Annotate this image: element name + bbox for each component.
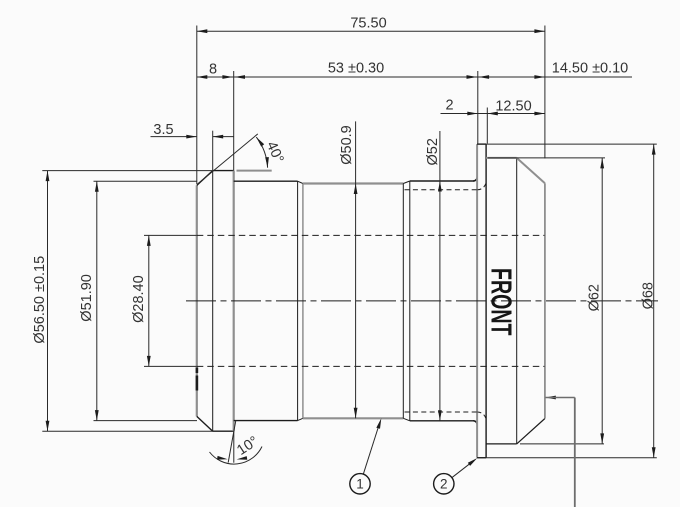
tilted face extension 10deg: [228, 421, 236, 463]
ext line y=144.1 OD68 top: [477, 143, 657, 145]
ext line x=477.8 (disc face): [477, 71, 479, 144]
ext line y=420.6 OD51.90 bottom: [94, 420, 198, 422]
leader to right face (L-shape): [545, 396, 556, 400]
step face edge x=233.7 (gray): [233, 171, 235, 432]
dim 75.50 line: [197, 30, 545, 32]
flange disc top cap OD68: [477, 143, 486, 145]
svg-text:Ø56.50 ±0.15: Ø56.50 ±0.15: [32, 256, 48, 344]
flange right face x=544.9 (gray): [544, 183, 546, 418]
cone junction edge x=516.7: [516, 158, 518, 444]
hidden weld root arc top: [477, 182, 486, 190]
flange disc right face / joint x=486.1: [485, 144, 487, 458]
dim OD68 line: [653, 144, 655, 458]
OD56.5 top edge: [213, 170, 234, 172]
dim row3 line: [441, 113, 545, 115]
svg-text:Ø68: Ø68: [641, 282, 657, 309]
svg-text:2: 2: [440, 477, 448, 492]
svg-text:Ø62: Ø62: [587, 284, 603, 311]
ext line y=431.2 OD56.5 bottom: [42, 430, 213, 432]
hidden weld root bottom (dashed): [405, 411, 478, 413]
centerline: [186, 300, 658, 302]
horizontal reference line 40deg (gray): [237, 170, 272, 172]
weld prep chamfer bottom-left: [197, 416, 213, 431]
dim 3.5 lines: [151, 136, 197, 138]
ext line y=366.4 OD28.40 bottom: [144, 365, 197, 367]
hidden weld root arc bottom: [477, 412, 486, 420]
chamfer tangent edge x=212.7: [212, 171, 214, 432]
balloon 1 circle: [350, 474, 370, 494]
hidden weld root top (dashed): [405, 189, 478, 191]
svg-text:8: 8: [209, 61, 217, 77]
weld fillet top (solid): [473, 176, 477, 181]
ext line vertical 10deg: [233, 432, 235, 463]
chamfer extension line 40deg: [198, 134, 258, 184]
step2 face edge x=297.6: [297, 181, 299, 420]
step2 chamfer bottom: [298, 418, 303, 420]
step3 chamfer bottom: [403, 418, 410, 421]
ext line x=487.3 (disc back): [486, 108, 488, 144]
10deg arc: [210, 447, 263, 465]
balloon 2 circle: [434, 474, 454, 494]
flange ring bottom edge OD62: [486, 443, 517, 445]
flange cone bottom edge: [517, 419, 545, 444]
step2 chamfer top: [298, 181, 303, 183]
svg-text:53 ±0.30: 53 ±0.30: [328, 60, 384, 76]
bore hidden line bottom (dashed): [197, 365, 545, 367]
svg-text:75.50: 75.50: [350, 15, 386, 31]
flange disc bottom cap OD68: [477, 457, 486, 459]
svg-text:FRONT: FRONT: [485, 268, 517, 336]
ext line y=181.2 OD51.90 top: [94, 180, 197, 182]
svg-text:Ø50.9: Ø50.9: [339, 125, 355, 165]
dim row2 line: [197, 76, 632, 78]
ext line x=212.7 (chamfer): [212, 131, 214, 171]
weld fillet bottom (solid): [473, 421, 477, 426]
svg-text:12.50: 12.50: [495, 99, 531, 115]
dim OD50.9 line: [355, 121, 357, 418]
svg-text:2: 2: [445, 98, 453, 114]
flange ring top edge OD62 (gray): [486, 157, 517, 159]
OD50.9 bottom edge (gray): [303, 417, 403, 419]
40deg arc: [256, 137, 267, 168]
ext line x=233.7 (step): [233, 71, 235, 171]
ext line y=443.9 OD62 bottom: [520, 443, 604, 445]
svg-text:14.50 ±0.10: 14.50 ±0.10: [552, 60, 629, 76]
bore hidden line top (dashed): [197, 234, 545, 236]
step3 chamfer top: [403, 181, 410, 184]
ext line y=157.9 OD62 top: [488, 157, 605, 159]
svg-text:Ø52: Ø52: [425, 138, 441, 165]
ext line x=544.9 (right face): [544, 26, 546, 159]
balloon 2 leader: [452, 463, 470, 477]
OD51.90 top edge: [234, 180, 298, 182]
ext line y=170.6 OD56.5 top: [42, 170, 212, 172]
svg-text:3.5: 3.5: [153, 122, 173, 138]
OD56.5 bottom edge: [213, 430, 234, 432]
step3 tangent edge x=409.8: [409, 181, 411, 421]
svg-text:1: 1: [356, 477, 364, 492]
OD52 bottom edge: [410, 420, 475, 422]
hidden bar on left face below bore: [196, 368, 199, 374]
balloon 1 leader: [363, 423, 380, 475]
dim OD51.90 line: [96, 181, 98, 420]
dim OD56.50 line: [47, 171, 49, 432]
dim OD62 line: [601, 158, 603, 444]
OD51.90 bottom edge: [234, 420, 298, 422]
flange cone top edge (gray): [517, 158, 545, 183]
OD52 top edge: [410, 180, 475, 182]
flange disc left face x=477.1 (gray): [476, 144, 478, 458]
ext line x=196.8 (left face): [196, 26, 198, 185]
weld prep chamfer top-left 40deg: [197, 171, 213, 186]
svg-text:Ø51.90: Ø51.90: [79, 274, 95, 322]
dim OD52 line: [439, 131, 441, 421]
OD50.9 top edge (gray): [303, 182, 403, 184]
svg-text:Ø28.40: Ø28.40: [131, 275, 147, 323]
ext line y=457.7 OD68 bottom: [477, 457, 657, 459]
step2 tangent edge x=302.9: [302, 184, 304, 419]
step3 face edge x=403.3: [402, 184, 404, 419]
ext line y=235.4 OD28.40 top: [144, 234, 197, 236]
dim OD28.40 line: [148, 235, 150, 366]
part body left face (vertical, gray): [196, 185, 198, 416]
